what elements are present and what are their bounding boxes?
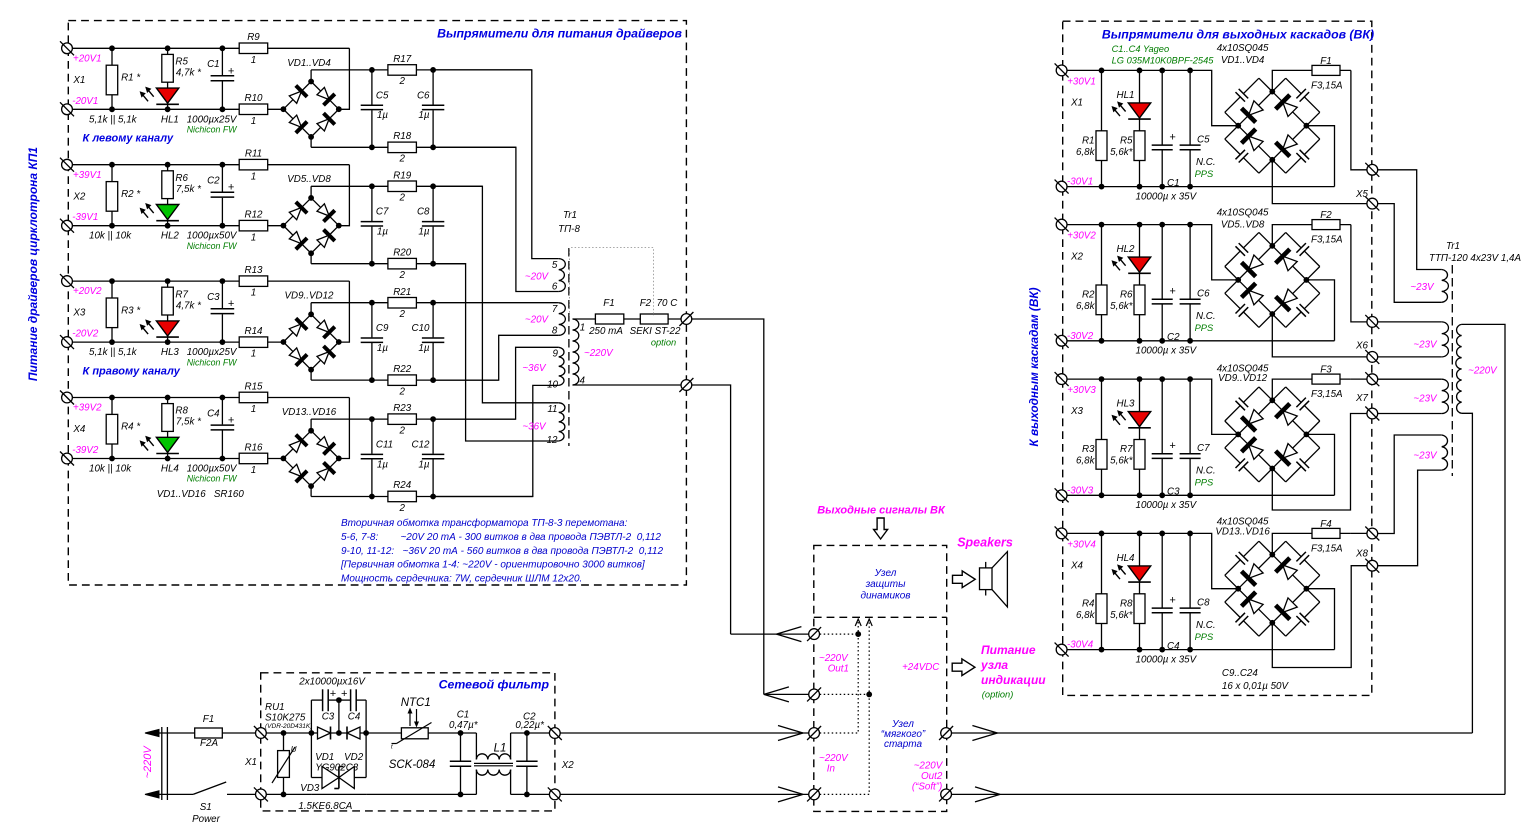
svg-text:Nichicon FW: Nichicon FW bbox=[187, 357, 238, 367]
svg-text:1: 1 bbox=[251, 465, 256, 476]
wire bbox=[310, 370, 312, 380]
junction bbox=[1159, 338, 1165, 344]
terminal X3 + bbox=[60, 274, 74, 288]
wire bbox=[1101, 225, 1103, 341]
option dotted box bbox=[570, 248, 654, 316]
wire bbox=[433, 186, 559, 402]
wire bbox=[221, 398, 223, 459]
svg-text:C6: C6 bbox=[417, 90, 430, 101]
svg-text:R8: R8 bbox=[1120, 598, 1133, 609]
divider bbox=[814, 616, 947, 618]
junction bbox=[165, 45, 171, 51]
svg-text:C1..C4 Yageo: C1..C4 Yageo bbox=[1112, 44, 1170, 54]
svg-text:(option): (option) bbox=[982, 690, 1014, 700]
junction bbox=[1187, 338, 1193, 344]
svg-text:1: 1 bbox=[251, 171, 256, 182]
arrow bbox=[975, 787, 1000, 795]
transformer Tr1 TP-8 core bbox=[568, 248, 570, 446]
svg-text:+39V1: +39V1 bbox=[73, 170, 102, 181]
junction bbox=[1269, 89, 1275, 95]
junction bbox=[1159, 647, 1165, 653]
wire X2 to soft start in bbox=[557, 732, 812, 734]
wire bbox=[365, 700, 367, 777]
svg-text:LG 035M10K0BPF-2545: LG 035M10K0BPF-2545 bbox=[1112, 56, 1215, 66]
svg-text:C5: C5 bbox=[376, 90, 389, 101]
wire bbox=[1462, 324, 1505, 794]
svg-text:динамиков: динамиков bbox=[860, 591, 910, 602]
junction bbox=[109, 106, 115, 112]
svg-text:F3,15A: F3,15A bbox=[1311, 389, 1343, 400]
resistor R24 bbox=[388, 491, 417, 502]
junction bbox=[308, 195, 314, 201]
arrow bbox=[776, 627, 801, 635]
transformer Tr1 TTP-120 core bbox=[1451, 265, 1453, 476]
transformer Tr1 TP-8 primary 1-4 bbox=[573, 319, 579, 385]
terminal X1 - bbox=[60, 102, 74, 116]
svg-text:(VDR-20D431K): (VDR-20D431K) bbox=[265, 723, 312, 730]
svg-text:Out2: Out2 bbox=[921, 771, 943, 782]
svg-text:~220V: ~220V bbox=[914, 760, 944, 771]
wire bbox=[67, 164, 349, 166]
dotted control wire T1 bbox=[820, 633, 859, 635]
capacitor C9 bbox=[370, 337, 374, 343]
junction bbox=[165, 223, 171, 229]
wire bbox=[428, 732, 476, 734]
svg-text:+24VDC: +24VDC bbox=[902, 662, 940, 673]
junction bbox=[1099, 492, 1105, 498]
terminal X1 + bbox=[1055, 63, 1069, 77]
capacitor C3 10000u bbox=[311, 699, 322, 701]
svg-text:~220V: ~220V bbox=[819, 653, 849, 664]
svg-text:R7: R7 bbox=[1120, 444, 1133, 455]
svg-text:+39V2: +39V2 bbox=[73, 403, 102, 414]
junction bbox=[220, 395, 226, 401]
resistor R4 bbox=[106, 414, 118, 444]
svg-text:~23V: ~23V bbox=[1413, 340, 1438, 351]
svg-text:+20V2: +20V2 bbox=[73, 286, 102, 297]
wire bbox=[433, 385, 559, 496]
junction bbox=[1187, 68, 1193, 74]
svg-text:4,7k *: 4,7k * bbox=[176, 68, 202, 79]
junction bbox=[220, 456, 226, 462]
svg-text:6,8k: 6,8k bbox=[1076, 147, 1096, 158]
svg-text:F2: F2 bbox=[1320, 210, 1332, 221]
LED HL4 bbox=[156, 437, 178, 452]
junction bbox=[220, 339, 226, 345]
resistor R3 6,8k bbox=[1096, 440, 1107, 470]
wire bbox=[311, 379, 499, 381]
wire bbox=[1378, 356, 1442, 358]
svg-text:R3: R3 bbox=[1082, 444, 1095, 455]
svg-text:10k || 10k: 10k || 10k bbox=[89, 464, 132, 475]
transformer Tr1 TTP-120 winding IV ~23V bbox=[1442, 435, 1448, 470]
wire bbox=[310, 303, 312, 315]
svg-text:1µ: 1µ bbox=[377, 227, 388, 238]
svg-text:10000µ x 35V: 10000µ x 35V bbox=[1136, 500, 1198, 511]
capacitor C8 N.C. PPS bbox=[1188, 608, 1192, 614]
junction bbox=[109, 223, 115, 229]
svg-text:10000µ x 35V: 10000µ x 35V bbox=[1136, 654, 1198, 665]
terminal X1 + bbox=[60, 41, 74, 55]
svg-text:5,6k*: 5,6k* bbox=[1110, 456, 1134, 467]
wire to speaker protection T1 bbox=[691, 385, 731, 634]
wire bbox=[311, 496, 533, 498]
svg-text:C1: C1 bbox=[457, 710, 470, 721]
svg-text:1µ: 1µ bbox=[418, 110, 429, 121]
svg-text:~36V: ~36V bbox=[522, 363, 547, 374]
svg-text:C4: C4 bbox=[1167, 641, 1180, 652]
junction bbox=[281, 106, 287, 112]
wire bbox=[1062, 649, 1335, 651]
LED HL2 bbox=[156, 205, 178, 220]
wire bbox=[573, 384, 687, 386]
fuse F2 SEKI ST-22 bbox=[640, 318, 668, 320]
resistor R14 bbox=[239, 337, 268, 348]
svg-text:X3: X3 bbox=[1070, 406, 1084, 417]
svg-text:8: 8 bbox=[552, 325, 558, 336]
svg-text:HL4: HL4 bbox=[161, 464, 180, 475]
wire bbox=[573, 318, 596, 320]
svg-text:5,6k*: 5,6k* bbox=[1110, 301, 1134, 312]
svg-text:2: 2 bbox=[398, 309, 405, 320]
wire bbox=[67, 397, 349, 399]
wire bbox=[1272, 533, 1351, 554]
wire bbox=[311, 69, 532, 71]
svg-text:VD9..VD12: VD9..VD12 bbox=[284, 291, 334, 302]
transformer Tr1 TP-8 secondary 9-10 bbox=[559, 347, 565, 385]
capacitor C11 bbox=[370, 454, 374, 460]
resistor R20 bbox=[388, 258, 417, 269]
svg-text:+: + bbox=[228, 182, 235, 194]
wire bbox=[310, 700, 312, 777]
svg-text:ТП-8: ТП-8 bbox=[558, 224, 580, 235]
junction bbox=[1099, 222, 1105, 228]
svg-text:1: 1 bbox=[251, 288, 256, 299]
svg-text:Tr1: Tr1 bbox=[563, 210, 577, 221]
junction bbox=[336, 339, 342, 345]
svg-text:Выпрямители для выходных каска: Выпрямители для выходных каскадов (ВК) bbox=[1102, 28, 1374, 42]
junction bbox=[220, 106, 226, 112]
svg-text:1µ: 1µ bbox=[418, 459, 429, 470]
svg-text:~23V: ~23V bbox=[1413, 451, 1438, 462]
junction bbox=[1235, 277, 1241, 283]
svg-text:R22: R22 bbox=[393, 364, 412, 375]
wire bbox=[1139, 70, 1141, 186]
resistor R13 bbox=[239, 276, 268, 287]
junction bbox=[1187, 531, 1193, 537]
junction bbox=[1269, 552, 1275, 558]
svg-text:10000µ x 35V: 10000µ x 35V bbox=[1136, 346, 1198, 357]
wire bbox=[111, 398, 113, 459]
svg-text:SEKI ST-22: SEKI ST-22 bbox=[630, 326, 681, 337]
wire bbox=[1189, 225, 1191, 341]
svg-text:6,8k: 6,8k bbox=[1076, 301, 1096, 312]
wire bbox=[433, 347, 559, 419]
terminal X2 bottom bbox=[548, 787, 562, 801]
wire bbox=[557, 302, 559, 304]
terminal X2 - bbox=[60, 219, 74, 233]
capacitor C2 0,22u bbox=[526, 733, 528, 794]
transformer Tr1 TTP-120 winding II ~23V bbox=[1442, 322, 1449, 357]
mains arrows ~220V bbox=[145, 729, 159, 736]
terminal X3 + bbox=[1055, 372, 1069, 386]
svg-text:X1: X1 bbox=[244, 757, 257, 768]
wire bbox=[1101, 70, 1103, 186]
svg-text:R1: R1 bbox=[1082, 135, 1095, 146]
svg-text:1µ: 1µ bbox=[418, 227, 429, 238]
svg-text:R17: R17 bbox=[393, 54, 412, 65]
junction bbox=[458, 730, 464, 736]
resistor R7 bbox=[162, 287, 174, 315]
arrow down bbox=[874, 518, 888, 539]
diode bridge VD13..VD16 bbox=[283, 431, 338, 486]
svg-text:NTC1: NTC1 bbox=[401, 697, 431, 709]
wire bbox=[432, 70, 434, 147]
svg-text:R20: R20 bbox=[393, 247, 412, 258]
svg-text:~23V: ~23V bbox=[1410, 282, 1435, 293]
wire bbox=[221, 281, 223, 342]
wire bbox=[1189, 533, 1191, 649]
svg-text:C6: C6 bbox=[1197, 289, 1210, 300]
junction bbox=[1159, 531, 1165, 537]
svg-text:Выпрямители для питания драйве: Выпрямители для питания драйверов bbox=[437, 27, 682, 41]
junction bbox=[1159, 376, 1165, 382]
junction bbox=[1269, 397, 1275, 403]
junction bbox=[1099, 531, 1105, 537]
terminal X7 a bbox=[1365, 372, 1379, 386]
wire bbox=[1139, 379, 1141, 495]
arrow right bbox=[952, 659, 975, 676]
svg-text:C5: C5 bbox=[1197, 134, 1210, 145]
svg-text:HL3: HL3 bbox=[1117, 399, 1136, 410]
svg-text:R24: R24 bbox=[393, 480, 412, 491]
wire bbox=[67, 280, 349, 282]
svg-text:R6: R6 bbox=[175, 173, 188, 184]
svg-text:-20V2: -20V2 bbox=[72, 329, 99, 340]
capacitor C3 10000u bbox=[1160, 453, 1164, 459]
junction bbox=[308, 134, 314, 140]
svg-text:R2: R2 bbox=[1082, 290, 1095, 301]
junction bbox=[430, 144, 436, 150]
junction bbox=[281, 223, 287, 229]
svg-text:X2: X2 bbox=[561, 760, 575, 771]
svg-text:C9..C24: C9..C24 bbox=[1222, 668, 1258, 679]
svg-text:N.C.: N.C. bbox=[1196, 620, 1216, 631]
junction bbox=[165, 106, 171, 112]
wire bbox=[1272, 225, 1351, 246]
wire bbox=[1101, 533, 1103, 649]
svg-text:C3: C3 bbox=[1167, 487, 1180, 498]
junction bbox=[1304, 586, 1310, 592]
terminal ~220V Out1 a bbox=[807, 627, 821, 641]
resistor R12 bbox=[239, 220, 268, 231]
resistor R22 bbox=[388, 375, 417, 386]
svg-text:F2A: F2A bbox=[200, 738, 218, 749]
wire bbox=[1139, 225, 1141, 341]
speaker bbox=[980, 552, 1008, 607]
svg-text:5,6k*: 5,6k* bbox=[1110, 147, 1134, 158]
svg-text:R10: R10 bbox=[245, 93, 264, 104]
junction bbox=[1099, 184, 1105, 190]
junction bbox=[855, 631, 861, 637]
svg-text:К выходным каскадам (ВК): К выходным каскадам (ВК) bbox=[1027, 287, 1041, 446]
resistor R11 bbox=[239, 159, 268, 170]
fuse F4 F3,15A bbox=[1312, 528, 1340, 538]
junction bbox=[1137, 492, 1143, 498]
junction bbox=[1137, 184, 1143, 190]
capacitor C5 bbox=[370, 105, 374, 111]
terminal X1 bottom bbox=[254, 787, 268, 801]
wire bbox=[311, 793, 366, 795]
diode bridge VD5..VD8 bbox=[283, 198, 338, 253]
svg-text:C1: C1 bbox=[1167, 178, 1180, 189]
terminal 220V out1 b bbox=[679, 378, 693, 392]
wire bbox=[111, 165, 113, 226]
junction bbox=[1137, 68, 1143, 74]
svg-text:0,47µ*: 0,47µ* bbox=[449, 720, 479, 731]
wire bbox=[1161, 70, 1163, 186]
svg-text:C4: C4 bbox=[207, 408, 220, 419]
svg-text:+: + bbox=[228, 415, 235, 427]
svg-text:F1: F1 bbox=[203, 714, 214, 725]
junction bbox=[1269, 466, 1275, 472]
junction bbox=[430, 183, 436, 189]
svg-text:VD1..VD4: VD1..VD4 bbox=[1221, 55, 1265, 66]
svg-text:2: 2 bbox=[398, 425, 405, 436]
arrow bbox=[764, 687, 789, 695]
svg-text:+30V2: +30V2 bbox=[1067, 231, 1096, 242]
junction bbox=[1269, 311, 1275, 317]
svg-text:1: 1 bbox=[251, 404, 256, 415]
svg-text:S1: S1 bbox=[200, 802, 212, 813]
svg-text:X2: X2 bbox=[1070, 252, 1084, 263]
svg-text:VD13..VD16: VD13..VD16 bbox=[1215, 527, 1270, 538]
wire bbox=[338, 700, 340, 733]
terminal X1 - bbox=[1055, 180, 1069, 194]
svg-text:L1: L1 bbox=[494, 743, 507, 755]
junction bbox=[1137, 338, 1143, 344]
wire bbox=[1378, 378, 1442, 380]
terminal X5 a bbox=[1365, 163, 1379, 177]
junction bbox=[369, 67, 375, 73]
svg-text:+: + bbox=[1169, 286, 1176, 298]
svg-text:PPS: PPS bbox=[1195, 169, 1214, 179]
junction bbox=[369, 261, 375, 267]
junction bbox=[430, 261, 436, 267]
wire bbox=[1462, 413, 1473, 733]
svg-text:VD9..VD12: VD9..VD12 bbox=[1218, 373, 1268, 384]
wire bbox=[511, 793, 553, 795]
resistor R17 bbox=[388, 65, 417, 76]
svg-text:-30V1: -30V1 bbox=[1067, 177, 1093, 188]
terminal X7 b bbox=[1365, 407, 1379, 421]
svg-text:4,7k *: 4,7k * bbox=[176, 300, 202, 311]
wire bbox=[1062, 533, 1239, 588]
svg-text:Nichicon FW: Nichicon FW bbox=[187, 474, 238, 484]
svg-text:C1: C1 bbox=[207, 59, 220, 70]
svg-text:HL2: HL2 bbox=[161, 231, 180, 242]
svg-text:R11: R11 bbox=[245, 149, 262, 160]
capacitor C2 bbox=[220, 192, 224, 198]
capacitor C7 N.C. PPS bbox=[1188, 453, 1192, 459]
junction bbox=[1137, 222, 1143, 228]
capacitor C1 10000u bbox=[1160, 145, 1164, 151]
svg-text:HL1: HL1 bbox=[1117, 90, 1135, 101]
arrow bbox=[778, 787, 803, 795]
wire bbox=[167, 165, 169, 226]
svg-text:+: + bbox=[330, 688, 337, 700]
junction bbox=[281, 339, 287, 345]
svg-text:F2 70 C: F2 70 C bbox=[640, 298, 678, 309]
svg-text:C8: C8 bbox=[417, 207, 430, 218]
rectifier bridge VD9..VD12 4x10SQ045 bbox=[1225, 387, 1320, 482]
wire bbox=[311, 185, 482, 187]
svg-text:C8: C8 bbox=[1197, 597, 1210, 608]
svg-text:R15: R15 bbox=[245, 381, 264, 392]
svg-text:~20V: ~20V bbox=[525, 272, 550, 283]
wire bbox=[310, 70, 312, 82]
junction bbox=[1269, 620, 1275, 626]
svg-text:5,6k*: 5,6k* bbox=[1110, 610, 1134, 621]
terminal X3 - bbox=[60, 335, 74, 349]
svg-text:Nichicon FW: Nichicon FW bbox=[187, 125, 238, 135]
wire bbox=[167, 281, 169, 342]
svg-text:X4: X4 bbox=[1070, 560, 1084, 571]
wire bbox=[167, 398, 169, 459]
svg-text:9: 9 bbox=[553, 349, 559, 360]
capacitor C7 bbox=[370, 221, 374, 227]
svg-text:C7: C7 bbox=[1197, 443, 1210, 454]
wire bbox=[111, 48, 113, 109]
LED HL1 bbox=[1128, 103, 1150, 118]
svg-text:250 mA: 250 mA bbox=[588, 326, 623, 337]
terminal X4 - bbox=[60, 452, 74, 466]
svg-text:N.C.: N.C. bbox=[1196, 157, 1216, 168]
svg-text:Out1: Out1 bbox=[828, 664, 849, 675]
capacitor C10 bbox=[431, 337, 435, 343]
svg-text:R2 *: R2 * bbox=[121, 189, 141, 200]
svg-text:+: + bbox=[1169, 594, 1176, 606]
svg-text:R4: R4 bbox=[1082, 598, 1095, 609]
terminal X1 top bbox=[254, 726, 268, 740]
svg-text:option: option bbox=[651, 338, 676, 348]
svg-text:X7: X7 bbox=[1355, 393, 1369, 404]
wire bbox=[159, 732, 195, 734]
dashed arrow head bbox=[855, 619, 861, 626]
wire bbox=[511, 732, 553, 734]
resistor R8 5,6k bbox=[1134, 594, 1145, 624]
wire bbox=[1272, 314, 1369, 357]
junction bbox=[109, 278, 115, 284]
svg-text:Вторичная обмотка трансформато: Вторичная обмотка трансформатора ТП-8-3 … bbox=[341, 517, 628, 529]
wire bbox=[67, 225, 283, 227]
svg-text:C11: C11 bbox=[376, 440, 393, 451]
svg-text:1: 1 bbox=[251, 349, 256, 360]
LED HL3 bbox=[1128, 412, 1150, 427]
junction bbox=[1159, 184, 1165, 190]
junction bbox=[109, 339, 115, 345]
svg-text:+: + bbox=[341, 688, 348, 700]
resistor R16 bbox=[239, 453, 268, 464]
junction bbox=[336, 730, 342, 736]
svg-text:C3: C3 bbox=[322, 712, 335, 723]
svg-text:10000µ x 35V: 10000µ x 35V bbox=[1136, 191, 1198, 202]
svg-text:HL1: HL1 bbox=[161, 114, 179, 125]
capacitor C2 10000u bbox=[1160, 299, 1164, 305]
terminal X2 top bbox=[548, 726, 562, 740]
TVS diode VD3 1.5KE6.8CA bbox=[311, 767, 366, 789]
terminal X2 + bbox=[1055, 218, 1069, 232]
